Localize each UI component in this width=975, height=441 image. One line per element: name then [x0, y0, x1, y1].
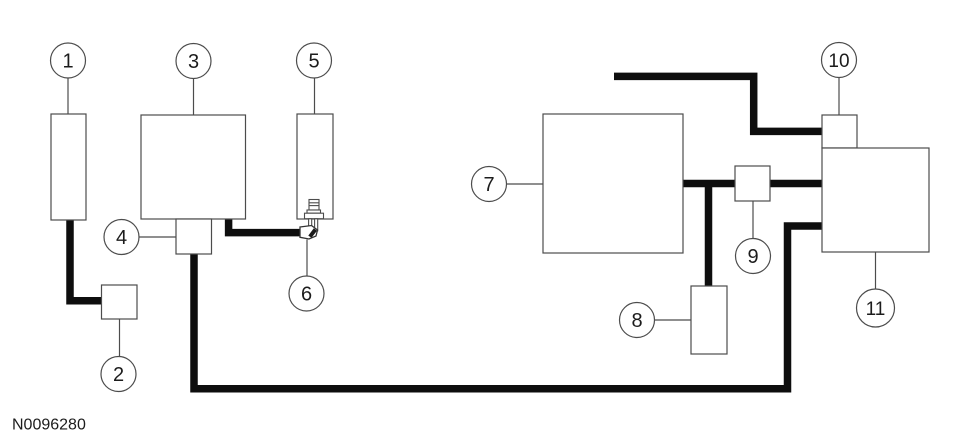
fitting 6: ribbed stem inside component 5 — [305, 200, 324, 219]
callout circle 7 — [472, 167, 507, 202]
svg-text:7: 7 — [483, 174, 494, 196]
component 11 box — [822, 148, 929, 252]
callout circle 1 — [51, 43, 86, 78]
hose: component 1 to component 2 — [70, 219, 102, 301]
fitting 6: prongs below component 5 — [309, 219, 318, 231]
hose: component 4 down, along bottom, up to component 11 — [194, 226, 822, 389]
component 9 box (check valve) — [735, 166, 770, 201]
svg-text:6: 6 — [301, 284, 312, 306]
svg-text:5: 5 — [308, 51, 319, 73]
leader line callout 11 — [875, 252, 877, 289]
leader line callout 1 — [67, 78, 69, 114]
leader line callout 6 — [306, 240, 308, 277]
leader line callout 8 — [655, 319, 692, 321]
hose: branch down to component 8 — [705, 184, 713, 287]
callout circle 3 — [176, 44, 211, 79]
component 10 box (fitting on component 11) — [822, 115, 857, 148]
hose: component 3 to elbow fitting 6 — [229, 218, 302, 233]
callout circle 8 — [620, 303, 655, 338]
callout circle 9 — [736, 239, 771, 274]
leader line callout 9 — [752, 201, 754, 239]
leader line callout 7 — [507, 183, 544, 185]
leader line callout 5 — [314, 78, 316, 114]
svg-text:9: 9 — [747, 246, 758, 268]
component 1 box (vacuum reservoir) — [51, 114, 86, 220]
callout circle 6 — [289, 276, 324, 311]
svg-text:11: 11 — [866, 299, 886, 320]
leader line callout 3 — [193, 79, 195, 116]
component 7 box — [543, 114, 683, 253]
svg-text:3: 3 — [188, 51, 199, 73]
component 3 box — [141, 115, 246, 219]
callout circle 10 — [822, 43, 857, 78]
elbow fitting 6 dark tip — [308, 228, 317, 238]
hose: component 7 to component 11 through valve 9 — [683, 180, 822, 188]
component 5 box (canister) — [297, 114, 333, 219]
svg-text:2: 2 — [113, 364, 124, 386]
svg-text:1: 1 — [62, 51, 73, 73]
callout circle 4 — [104, 220, 139, 255]
leader line callout 10 — [838, 78, 840, 116]
hose: top supply line to component 10 — [614, 76, 822, 131]
callout circle 5 — [297, 43, 332, 78]
svg-text:10: 10 — [828, 51, 849, 72]
elbow fitting 6 body — [300, 226, 318, 240]
component 2 box (small connector) — [102, 285, 138, 319]
leader line callout 2 — [119, 319, 121, 357]
callout circle 2 — [101, 357, 136, 392]
svg-text:4: 4 — [116, 227, 127, 249]
svg-text:N0096280: N0096280 — [12, 417, 86, 434]
callout circle 11 — [857, 289, 895, 327]
component 4 box (small connector under component 3) — [176, 219, 212, 254]
component 8 box — [691, 286, 727, 354]
leader line callout 4 — [139, 236, 176, 238]
svg-text:8: 8 — [631, 310, 642, 332]
